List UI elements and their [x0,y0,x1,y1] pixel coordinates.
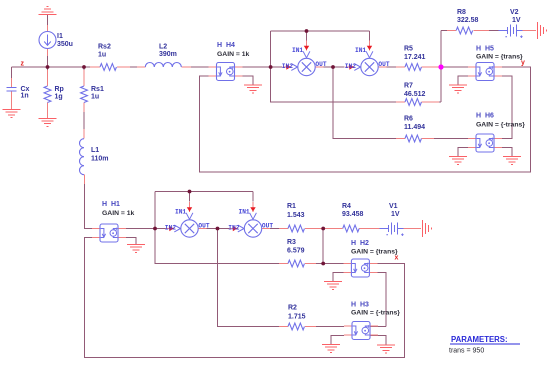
svg-text:H H2: H H2 [351,240,369,247]
wire: ground to I1 [47,15,49,32]
svg-text:IN1: IN1 [239,208,250,215]
svg-text:R6: R6 [404,116,413,123]
svg-text:IN2: IN2 [345,63,356,70]
resistor R6 [405,135,421,142]
svg-text:L2: L2 [159,43,167,50]
junction: I1/Rp at z bus [46,65,50,69]
resistor Rp [44,86,51,102]
wire: H1 out to U3 IN2 [118,228,172,230]
wire: I1 to z bus [47,49,49,68]
wire: V2 to ground [523,30,537,32]
junction: H1 out node [153,227,157,231]
junction: IN1 rail middle [188,190,192,194]
svg-text:R5: R5 [404,46,413,53]
ground H4 [244,85,262,93]
svg-text:GAIN = 1k: GAIN = 1k [217,51,250,58]
svg-text:GAIN = 1k: GAIN = 1k [102,210,135,217]
wire: z bus Rs2 to L2 [118,66,146,68]
wire: up to R8 [441,30,456,32]
svg-text:IN2: IN2 [282,63,293,70]
svg-text:z: z [21,61,25,68]
current source I1 [39,32,56,49]
svg-text:H H6: H H6 [476,113,494,120]
wire: L1 down to H1 input [85,175,93,229]
resistor Rs2 [100,64,116,71]
svg-text:IN1: IN1 [292,47,303,54]
svg-text:Rs2: Rs2 [98,43,111,50]
wire: U1 OUT to U2 IN2 [315,66,344,68]
junction: node y (magenta) [438,64,443,69]
wire: H5 lower out down to H6 [494,76,512,139]
svg-text:y: y [521,60,525,67]
resistor R7 [405,99,421,106]
wire: H2 to ground [333,273,344,282]
wire: U3 OUT to U4 IN2 [198,228,229,230]
junction: IN1 rail top [305,29,309,33]
capacitor Cx [7,88,17,92]
wire: z bus L2 to H4 [181,66,216,68]
wire: H1 to ground [118,238,136,245]
wire: junction down to R2 [218,229,284,327]
svg-text:I1: I1 [57,33,63,40]
wire: z down to Cx [11,67,13,81]
wire: H6 to ground right [494,148,512,157]
svg-text:R7: R7 [404,83,413,90]
controlled source H1 [92,224,126,242]
resistor R5 [405,64,421,71]
voltage source V1 [380,223,404,237]
svg-text:R8: R8 [457,9,466,16]
wire: R6 to H6 [422,138,469,140]
wire: R7 right lead to vertical [422,101,442,103]
svg-text:1g: 1g [55,94,63,101]
resistor R1 [288,225,304,232]
svg-text:GAIN = {-trans}: GAIN = {-trans} [351,310,400,317]
controlled source H6 [468,134,502,152]
svg-text:OUT: OUT [378,61,389,68]
svg-text:1V: 1V [512,17,521,24]
wire: R2 to H3 [305,326,344,328]
junction: Rs1 at z bus [82,65,86,69]
resistor Rs1 [81,86,88,102]
svg-text:6.579: 6.579 [287,248,305,255]
ground below Rp [39,118,57,126]
wire: down to mult U2 IN1 [369,31,371,41]
wire: U2 OUT to R5 [378,66,405,68]
wire: Rs1 to L1 [83,103,85,139]
wire: junction to U1 IN2 [271,66,282,68]
ground H3 left [322,345,340,353]
wire: z bus from node z to Rs2 [12,66,101,68]
multiplier U1 [282,40,327,75]
inductor L1 [80,139,85,175]
svg-text:R1: R1 [287,203,296,210]
wire: IN1 rail (top pair) [271,30,370,32]
svg-text:46.512: 46.512 [404,91,426,98]
svg-text:R3: R3 [287,239,296,246]
wire: V1 to ground [404,228,421,230]
svg-text:93.458: 93.458 [342,211,364,218]
controlled source H3 [344,322,378,340]
wire: R8/R7 vertical at node y junction [440,31,442,103]
svg-text:OUT: OUT [262,222,273,229]
wire: node y feedback loop to H4 [200,67,531,172]
ground H5 [449,85,467,93]
svg-text:R2: R2 [288,305,297,312]
junction: U3 out node [216,227,220,231]
svg-text:H H3: H H3 [351,302,369,309]
svg-text:H H4: H H4 [217,42,235,49]
controlled source H2 [343,259,377,277]
ground H6 left [449,157,467,165]
svg-text:L1: L1 [91,147,99,154]
wire: junction down to R6 [333,67,399,139]
wire: down to mult U1 IN1 [306,31,308,41]
wire: H2 lower out down to H3 [377,273,386,327]
wire: junction down to H2 row [322,229,324,264]
junction: R3/H2 node [321,262,325,266]
ground H1 [127,245,145,253]
svg-text:V1: V1 [389,203,398,210]
svg-text:IN1: IN1 [355,47,366,54]
wire: junction down to R7 [271,31,397,102]
wire: R1 to R4 [305,228,343,230]
svg-text:11.494: 11.494 [404,124,425,131]
svg-text:IN2: IN2 [165,224,176,231]
svg-text:IN1: IN1 [175,208,186,215]
resistor R3 [288,260,304,267]
junction: U1 out node [331,65,335,69]
wire: R5 to H5 [422,66,477,68]
ground H2 [324,282,342,290]
svg-text:1u: 1u [91,94,99,101]
wire: H5 to ground [458,76,476,85]
wire: H6 to ground [458,148,476,157]
svg-text:IN2: IN2 [228,224,239,231]
wire: down to U4 IN1 [252,192,254,202]
resistor R2 [288,323,304,330]
svg-text:17.241: 17.241 [404,54,426,61]
multiplier U4 [228,202,273,237]
wire: H4 lower input stub [208,75,217,77]
svg-text:1.543: 1.543 [287,212,305,219]
svg-text:1V: 1V [391,211,400,218]
wire: junction down to R3 row [155,192,280,264]
wire: H3 upper out [370,326,386,328]
svg-text:110m: 110m [91,156,109,163]
junction: H4 out node [269,65,273,69]
controlled source H4 [209,63,243,81]
svg-text:GAIN = {trans}: GAIN = {trans} [351,249,398,256]
voltage source V2 [499,25,523,39]
svg-text:PARAMETERS:: PARAMETERS: [451,335,508,344]
wire: node x feedback loop to H1 [85,238,405,358]
parameters underline [450,343,520,345]
component pin leads [11,78,13,88]
svg-text:H H1: H H1 [102,201,120,208]
wire: R8 to V2 [474,30,499,32]
svg-text:OUT: OUT [315,61,326,68]
controlled source H5 [468,63,502,81]
wire: U4 OUT to R1 [262,228,288,230]
svg-text:1.715: 1.715 [288,314,306,321]
wire: H4 out to junction [235,66,271,68]
resistor R8 [456,27,472,34]
svg-text:x: x [395,255,399,262]
svg-text:1n: 1n [21,93,29,100]
multiplier U2 [345,40,390,75]
svg-text:OUT: OUT [198,222,209,229]
wire: bus down to Rp [47,67,49,86]
ground H6 right [503,157,521,165]
svg-text:trans = 950: trans = 950 [449,348,484,355]
wire: IN1 rail (middle pair) [155,191,253,193]
ground above I1 [39,6,57,14]
wire: H3 to ground [331,336,344,345]
svg-text:H H5: H H5 [476,46,494,53]
inductor L2 [145,63,181,68]
wire: H3 to ground right [370,336,386,346]
svg-text:R4: R4 [342,203,351,210]
svg-text:322.58: 322.58 [457,17,479,24]
svg-text:390m: 390m [159,51,177,58]
wire: H4 to ground [235,76,254,85]
wire: R4 to V1 [359,228,381,230]
resistor R4 [343,225,359,232]
wire: down to U3 IN1 [189,192,191,202]
svg-text:V2: V2 [510,9,519,16]
ground V1 (sideways) [423,220,432,237]
svg-text:350u: 350u [57,41,73,48]
svg-text:Rs1: Rs1 [91,86,104,93]
wire: bus down to Rs1 [83,67,85,86]
junction: R1/R4 node [321,227,325,231]
ground H3 right [377,345,395,353]
multiplier U3 [165,202,210,237]
svg-text:GAIN = {-trans}: GAIN = {-trans} [476,122,525,129]
wire: R3 to H2 [305,263,344,265]
ground V2 (sideways) [538,22,547,39]
svg-text:1u: 1u [98,51,106,58]
svg-text:Rp: Rp [55,86,64,93]
svg-text:GAIN = {trans}: GAIN = {trans} [476,54,523,61]
ground below Cx [3,110,21,118]
